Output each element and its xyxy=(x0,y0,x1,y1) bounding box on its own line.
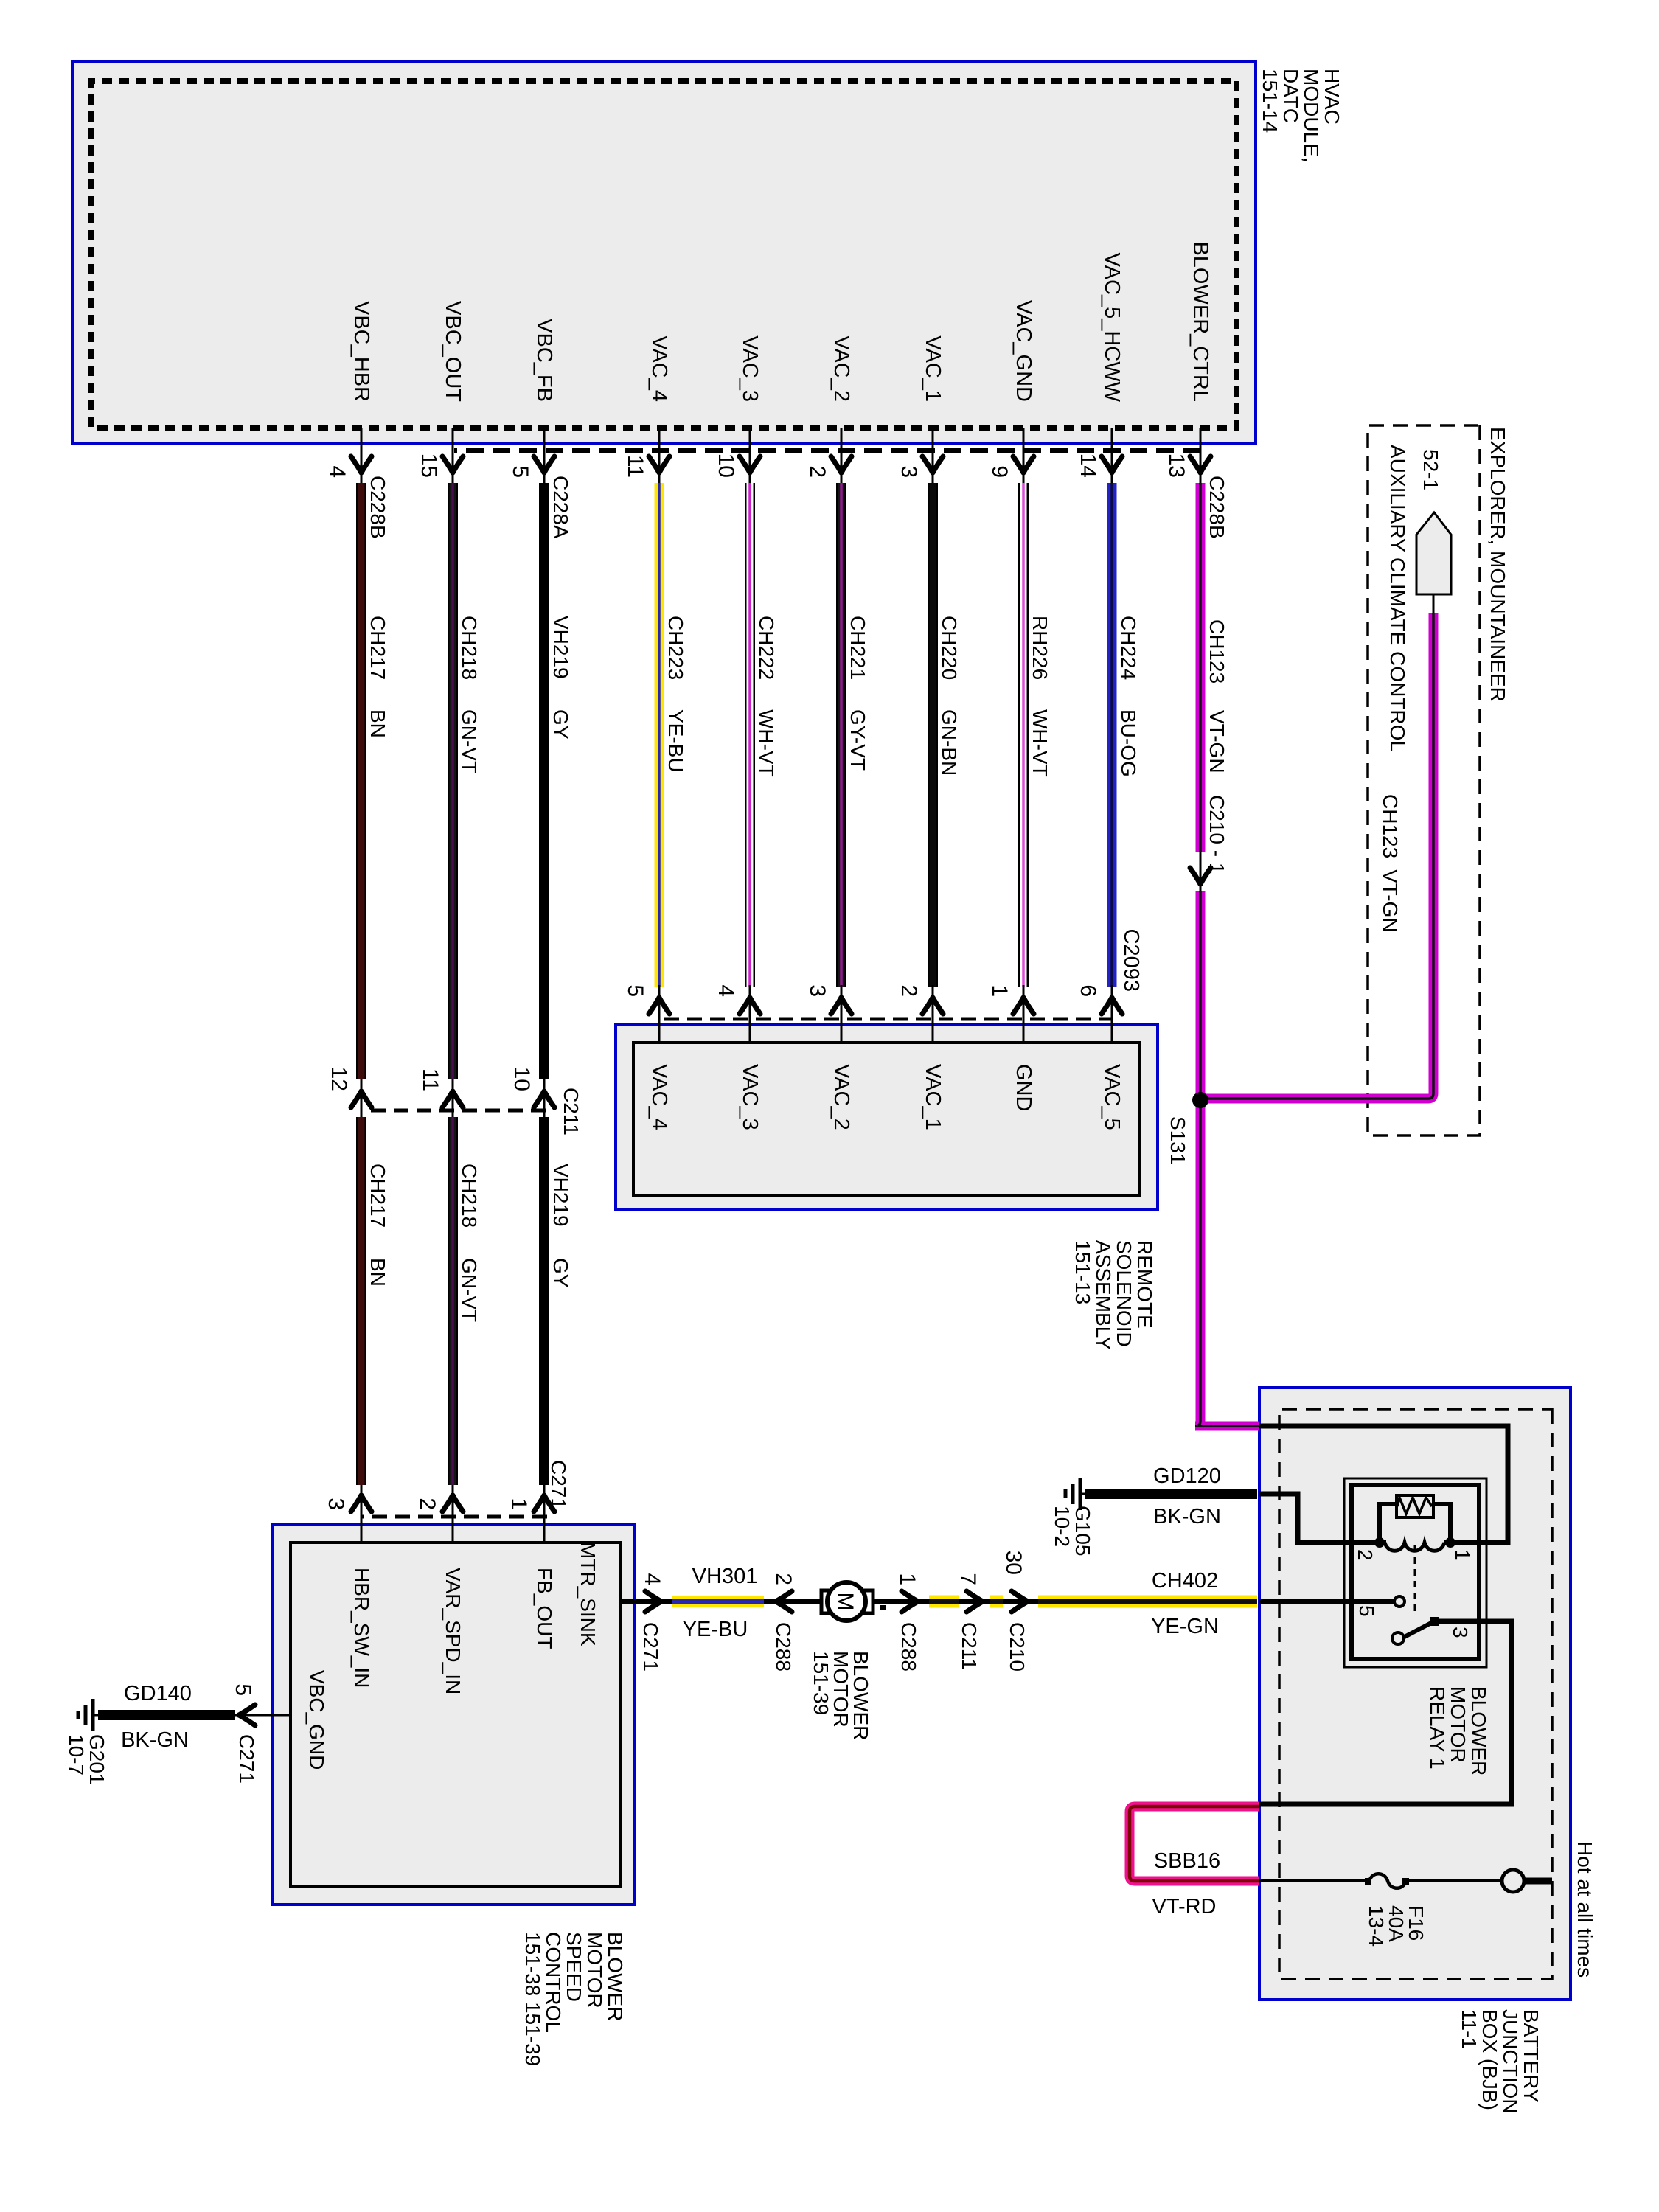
svg-text:7: 7 xyxy=(956,1573,980,1585)
svg-text:VT-RD: VT-RD xyxy=(1152,1895,1217,1919)
svg-text:YE-BU: YE-BU xyxy=(664,709,687,773)
svg-text:3: 3 xyxy=(324,1498,348,1510)
svg-text:HVAC: HVAC xyxy=(1321,69,1343,125)
svg-text:VT-GN: VT-GN xyxy=(1206,710,1228,773)
svg-text:CH221: CH221 xyxy=(846,616,869,680)
svg-text:AUXILIARY CLIMATE CONTROL: AUXILIARY CLIMATE CONTROL xyxy=(1386,445,1409,752)
svg-text:151-39: 151-39 xyxy=(810,1651,832,1715)
svg-text:VAC_1: VAC_1 xyxy=(921,335,945,402)
svg-text:C271: C271 xyxy=(547,1460,570,1509)
svg-text:1: 1 xyxy=(987,984,1012,997)
svg-text:BU-OG: BU-OG xyxy=(1117,709,1140,777)
svg-text:GD140: GD140 xyxy=(124,1682,192,1705)
svg-text:2: 2 xyxy=(897,984,921,997)
svg-text:VAC_5_HCWW: VAC_5_HCWW xyxy=(1100,253,1124,403)
svg-text:5: 5 xyxy=(508,465,532,478)
svg-text:BOX (BJB): BOX (BJB) xyxy=(1478,2009,1501,2110)
svg-text:VT-GN: VT-GN xyxy=(1379,869,1402,933)
svg-text:VH301: VH301 xyxy=(692,1565,758,1588)
svg-text:GN-VT: GN-VT xyxy=(458,709,481,773)
svg-text:JUNCTION: JUNCTION xyxy=(1499,2009,1522,2114)
svg-text:CH222: CH222 xyxy=(755,616,778,680)
svg-text:CH223: CH223 xyxy=(664,616,687,680)
svg-text:5: 5 xyxy=(623,984,647,997)
svg-text:GD120: GD120 xyxy=(1153,1464,1221,1488)
svg-text:C228A: C228A xyxy=(549,476,572,539)
svg-text:VBC_GND: VBC_GND xyxy=(305,1670,328,1770)
svg-text:9: 9 xyxy=(987,465,1012,478)
svg-text:FB_OUT: FB_OUT xyxy=(533,1568,556,1649)
svg-text:VBC_OUT: VBC_OUT xyxy=(441,301,465,402)
svg-text:C228B: C228B xyxy=(1206,476,1228,539)
svg-text:52-1: 52-1 xyxy=(1419,449,1442,490)
svg-text:GY-VT: GY-VT xyxy=(846,709,869,771)
svg-text:151-38 151-39: 151-38 151-39 xyxy=(521,1932,544,2066)
svg-text:G105: G105 xyxy=(1071,1506,1094,1557)
svg-text:11: 11 xyxy=(623,455,647,478)
svg-text:ASSEMBLY: ASSEMBLY xyxy=(1092,1240,1115,1350)
svg-text:10-7: 10-7 xyxy=(65,1734,88,1775)
svg-text:VAC_GND: VAC_GND xyxy=(1012,300,1035,402)
svg-text:CH220: CH220 xyxy=(938,616,961,680)
svg-text:WH-VT: WH-VT xyxy=(755,709,778,777)
svg-text:4: 4 xyxy=(714,984,738,997)
svg-text:1: 1 xyxy=(507,1498,531,1510)
svg-text:REMOTE: REMOTE xyxy=(1133,1240,1156,1329)
svg-text:BLOWER: BLOWER xyxy=(604,1932,627,2021)
svg-text:G201: G201 xyxy=(86,1734,108,1785)
svg-text:C271: C271 xyxy=(639,1622,662,1672)
svg-text:GN-VT: GN-VT xyxy=(458,1258,481,1322)
svg-text:VAC_4: VAC_4 xyxy=(647,335,671,402)
svg-text:VAC_1: VAC_1 xyxy=(921,1064,945,1130)
svg-text:2: 2 xyxy=(771,1573,796,1585)
svg-text:RH226: RH226 xyxy=(1029,616,1051,680)
svg-text:VAC_4: VAC_4 xyxy=(647,1064,671,1130)
svg-text:M: M xyxy=(833,1593,858,1611)
svg-text:30: 30 xyxy=(1001,1551,1026,1575)
svg-text:2: 2 xyxy=(1354,1549,1377,1561)
svg-text:RELAY 1: RELAY 1 xyxy=(1426,1686,1449,1770)
svg-text:13-4: 13-4 xyxy=(1365,1905,1388,1947)
svg-text:14: 14 xyxy=(1076,453,1100,478)
svg-text:15: 15 xyxy=(417,453,441,478)
svg-text:SOLENOID: SOLENOID xyxy=(1113,1240,1135,1347)
svg-text:YE-GN: YE-GN xyxy=(1151,1615,1219,1638)
svg-text:C2093: C2093 xyxy=(1119,929,1143,992)
svg-text:Hot at all times: Hot at all times xyxy=(1573,1841,1596,1978)
svg-text:BN: BN xyxy=(366,709,389,738)
svg-text:6: 6 xyxy=(1076,984,1100,997)
svg-text:VH219: VH219 xyxy=(549,616,572,679)
svg-text:BLOWER: BLOWER xyxy=(1467,1686,1490,1775)
svg-text:MOTOR: MOTOR xyxy=(1447,1686,1470,1763)
svg-text:10: 10 xyxy=(509,1067,534,1091)
svg-text:GND: GND xyxy=(1012,1064,1035,1111)
svg-text:C211: C211 xyxy=(958,1622,981,1670)
svg-text:5: 5 xyxy=(231,1683,255,1696)
svg-text:CH123: CH123 xyxy=(1206,619,1228,684)
svg-text:2: 2 xyxy=(415,1498,439,1510)
svg-text:1: 1 xyxy=(1451,1549,1474,1561)
svg-text:C271: C271 xyxy=(235,1734,258,1784)
svg-text:13: 13 xyxy=(1164,453,1189,478)
svg-text:YE-BU: YE-BU xyxy=(683,1618,748,1641)
svg-text:C211: C211 xyxy=(560,1088,582,1135)
svg-text:11: 11 xyxy=(418,1068,442,1091)
svg-text:S131: S131 xyxy=(1166,1116,1189,1164)
svg-text:2: 2 xyxy=(805,465,829,478)
svg-text:VAC_3: VAC_3 xyxy=(738,1064,762,1130)
svg-text:DATC: DATC xyxy=(1279,69,1302,123)
svg-text:VAC_2: VAC_2 xyxy=(829,1064,853,1130)
svg-text:EXPLORER, MOUNTAINEER: EXPLORER, MOUNTAINEER xyxy=(1486,427,1509,702)
svg-text:VBC_HBR: VBC_HBR xyxy=(349,301,373,402)
svg-text:4: 4 xyxy=(325,465,349,478)
svg-text:1: 1 xyxy=(895,1573,919,1585)
svg-text:4: 4 xyxy=(640,1573,664,1585)
svg-text:GY: GY xyxy=(549,1258,572,1288)
svg-text:5: 5 xyxy=(1355,1605,1378,1617)
svg-text:C288: C288 xyxy=(772,1622,795,1672)
svg-text:12: 12 xyxy=(327,1067,351,1091)
svg-text:BK-GN: BK-GN xyxy=(121,1728,189,1752)
svg-text:CH217: CH217 xyxy=(366,1164,389,1228)
svg-text:BN: BN xyxy=(366,1258,389,1287)
svg-text:SBB16: SBB16 xyxy=(1154,1849,1220,1873)
svg-text:MOTOR: MOTOR xyxy=(583,1932,606,2008)
svg-text:CONTROL: CONTROL xyxy=(542,1932,565,2033)
svg-text:BK-GN: BK-GN xyxy=(1153,1505,1221,1528)
svg-text:10: 10 xyxy=(714,453,738,478)
svg-text:C288: C288 xyxy=(897,1622,920,1672)
svg-text:151-14: 151-14 xyxy=(1259,69,1281,133)
svg-text:10-2: 10-2 xyxy=(1051,1506,1074,1547)
svg-text:VAC_3: VAC_3 xyxy=(738,335,762,402)
svg-text:SPEED: SPEED xyxy=(563,1932,585,2002)
svg-text:C228B: C228B xyxy=(366,476,389,539)
svg-text:C210 - 1: C210 - 1 xyxy=(1206,795,1228,874)
svg-text:BATTERY: BATTERY xyxy=(1520,2009,1543,2103)
svg-text:CH224: CH224 xyxy=(1117,616,1140,680)
svg-text:WH-VT: WH-VT xyxy=(1029,709,1051,777)
svg-text:VAC_2: VAC_2 xyxy=(829,335,853,402)
svg-text:VBC_FB: VBC_FB xyxy=(532,319,556,402)
svg-text:CH402: CH402 xyxy=(1152,1569,1218,1593)
svg-text:MODULE,: MODULE, xyxy=(1300,69,1323,163)
svg-text:3: 3 xyxy=(1449,1627,1472,1638)
svg-text:BLOWER_CTRL: BLOWER_CTRL xyxy=(1189,241,1212,402)
svg-text:CH218: CH218 xyxy=(458,1164,481,1228)
svg-text:HBR_SW_IN: HBR_SW_IN xyxy=(350,1568,373,1688)
svg-text:11-1: 11-1 xyxy=(1458,2009,1481,2049)
svg-text:C210: C210 xyxy=(1006,1622,1029,1672)
svg-text:MTR_SINK: MTR_SINK xyxy=(577,1542,599,1646)
svg-text:GN-BN: GN-BN xyxy=(938,709,961,776)
svg-text:CH218: CH218 xyxy=(458,616,481,680)
svg-text:CH217: CH217 xyxy=(366,616,389,680)
svg-text:3: 3 xyxy=(897,465,921,478)
svg-text:151-13: 151-13 xyxy=(1071,1240,1094,1304)
svg-text:3: 3 xyxy=(805,984,829,997)
svg-text:VAC_5: VAC_5 xyxy=(1100,1064,1124,1130)
svg-text:CH123: CH123 xyxy=(1379,794,1402,858)
svg-text:GY: GY xyxy=(549,709,572,740)
svg-text:VH219: VH219 xyxy=(549,1164,572,1227)
svg-text:VAR_SPD_IN: VAR_SPD_IN xyxy=(442,1568,465,1694)
